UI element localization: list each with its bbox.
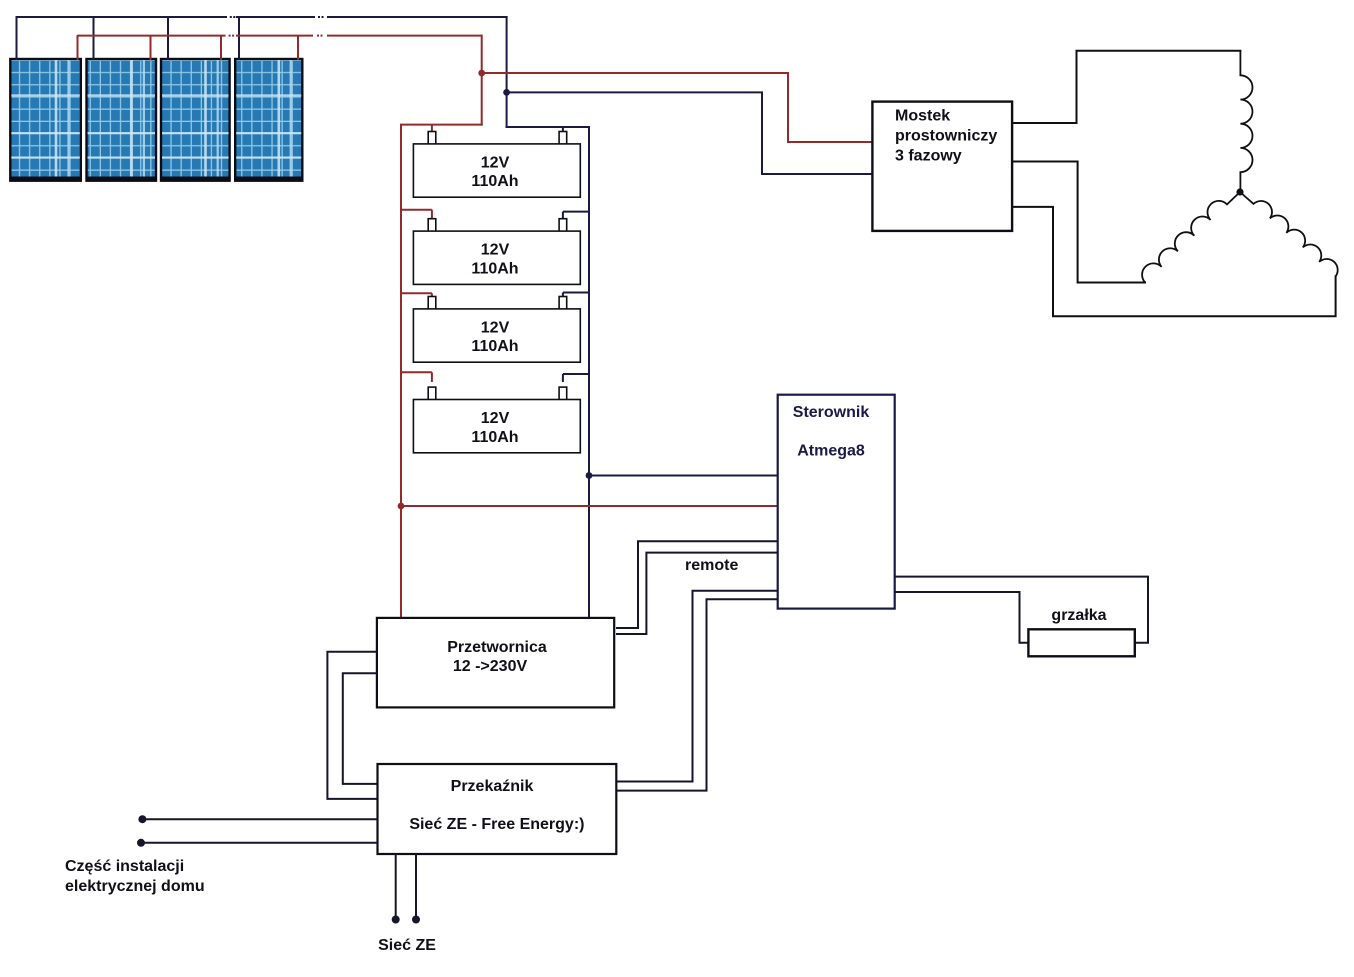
node generator star point — [1236, 188, 1243, 195]
wire house feed 1 — [138, 815, 377, 823]
label house — [65, 858, 205, 895]
wire red solar bus top — [78, 35, 482, 37]
battery B2 12V 110Ah — [413, 219, 580, 285]
wire navy battery bus — [506, 126, 590, 618]
solar panel PV4 — [235, 59, 303, 181]
wire generator phase 3 — [1012, 207, 1336, 316]
svg-text:12V: 12V — [481, 410, 510, 427]
wire red bus to Sterownik — [401, 505, 778, 507]
wire navy panel drops — [17, 16, 240, 60]
svg-text:12V: 12V — [481, 242, 510, 259]
wire navy down to junction — [506, 16, 508, 128]
svg-text:Sterownik: Sterownik — [793, 404, 870, 421]
wire heater 2 — [895, 592, 1029, 643]
generator coil L2 lower-left — [1142, 192, 1240, 283]
node navy battery bus junction — [586, 472, 593, 479]
solar panel PV2 — [86, 59, 156, 181]
generator coil L3 lower-right — [1240, 192, 1338, 276]
wire red to rectifier — [482, 73, 873, 142]
wire navy battery3 terminal — [563, 293, 590, 301]
wire grid 1 — [392, 854, 400, 924]
wire navy to rectifier — [507, 92, 873, 174]
wire red battery3 terminal — [400, 293, 432, 300]
svg-text:12 ->230V: 12 ->230V — [453, 658, 528, 675]
wire remote 2 — [616, 553, 778, 634]
svg-text:prostowniczy: prostowniczy — [895, 128, 997, 145]
svg-text:Przekaźnik: Przekaźnik — [451, 778, 534, 795]
heater box grzalka — [1028, 607, 1134, 656]
svg-text:Część instalacji: Część instalacji — [65, 858, 184, 875]
wire red panel drops — [78, 35, 299, 60]
svg-text:12V: 12V — [481, 155, 510, 172]
inverter box Przetwornica 12->230V — [377, 618, 614, 708]
solar panel PV3 — [161, 59, 230, 181]
node red battery bus junction — [398, 503, 405, 510]
svg-text:Przetwornica: Przetwornica — [447, 639, 547, 656]
wire red battery4 terminal — [400, 372, 432, 382]
svg-text:Mostek: Mostek — [895, 108, 950, 125]
svg-text:110Ah: 110Ah — [471, 173, 518, 190]
svg-text:Sieć ZE - Free Energy:): Sieć ZE - Free Energy:) — [409, 816, 584, 833]
generator coil L1 vertical — [1240, 51, 1252, 192]
node navy junction — [503, 89, 510, 96]
wire navy bus to Sterownik — [589, 475, 778, 477]
solar panel PV1 — [10, 59, 81, 181]
svg-text:Atmega8: Atmega8 — [797, 443, 865, 460]
wire remote 1 — [616, 541, 778, 628]
wire generator phase 2 — [1012, 162, 1146, 283]
wire red battery bus — [401, 124, 483, 618]
battery B3 12V 110Ah — [413, 297, 580, 363]
wire inverter to relay inner — [343, 673, 378, 784]
wire relay to controller 2 — [616, 599, 778, 790]
wire house feed 2 — [137, 839, 378, 847]
wire navy battery2 terminal — [563, 212, 590, 221]
wire red down to junction — [481, 35, 483, 126]
svg-text:remote: remote — [685, 557, 738, 574]
svg-text:12V: 12V — [481, 320, 510, 337]
svg-text:110Ah: 110Ah — [471, 338, 518, 355]
wire relay to controller 1 — [616, 591, 778, 782]
svg-text:Sieć ZE: Sieć ZE — [378, 937, 436, 954]
svg-text:grzałka: grzałka — [1051, 607, 1106, 624]
svg-text:110Ah: 110Ah — [471, 429, 518, 446]
battery B1 12V 110Ah — [413, 132, 580, 198]
wire heater 1 — [895, 577, 1148, 643]
node red junction — [478, 70, 485, 77]
wire navy battery1 terminal — [562, 126, 564, 133]
svg-text:elektrycznej domu: elektrycznej domu — [65, 878, 205, 895]
wire navy solar bus top — [16, 16, 508, 18]
svg-text:110Ah: 110Ah — [471, 260, 518, 277]
wire generator phase 1 — [1012, 51, 1241, 123]
svg-text:3 fazowy: 3 fazowy — [895, 148, 962, 165]
wire navy battery4 terminal — [563, 374, 590, 382]
wire red battery2 terminal — [400, 210, 432, 221]
wire grid 2 — [412, 854, 420, 924]
relay box Przekaznik — [378, 764, 617, 854]
wire red battery1 terminal — [431, 125, 433, 133]
wire inverter to relay outer — [327, 652, 377, 799]
battery B4 12V 110Ah — [413, 387, 580, 453]
controller box Sterownik Atmega8 — [778, 395, 895, 609]
rectifier box Mostek prostowniczy 3 fazowy — [872, 102, 1012, 231]
